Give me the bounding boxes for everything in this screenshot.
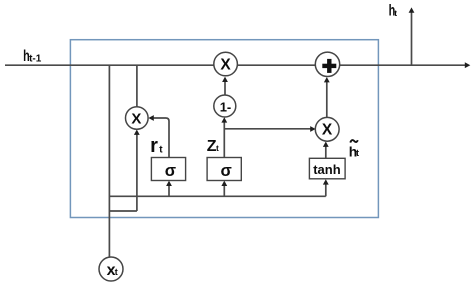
svg-text:tanh: tanh	[313, 162, 341, 177]
svg-text:X: X	[131, 110, 141, 127]
svg-text:t-1: t-1	[29, 53, 42, 64]
svg-text:σ: σ	[165, 162, 176, 180]
svg-text:X: X	[220, 57, 231, 74]
svg-text:r: r	[150, 135, 158, 157]
svg-text:t: t	[115, 267, 118, 277]
svg-text:t: t	[216, 143, 219, 153]
svg-text:t: t	[356, 148, 359, 158]
svg-text:t: t	[159, 145, 163, 156]
svg-text:σ: σ	[221, 162, 232, 180]
svg-text:1-: 1-	[220, 100, 232, 115]
svg-text:X: X	[322, 121, 333, 138]
svg-text:t: t	[394, 8, 397, 18]
